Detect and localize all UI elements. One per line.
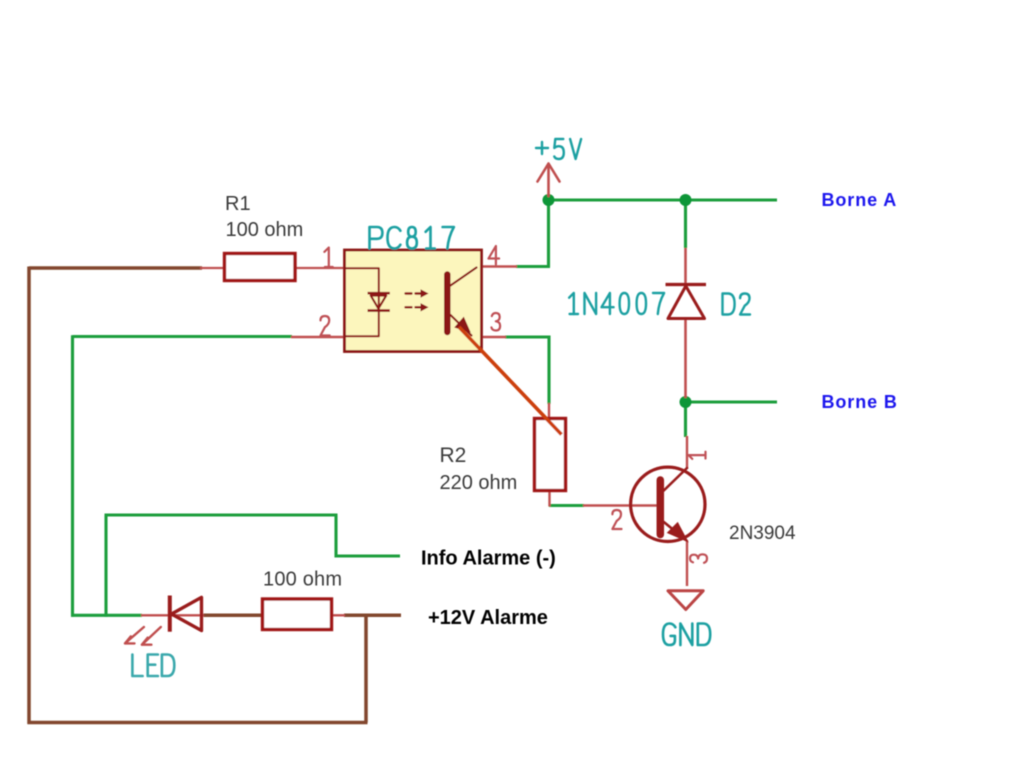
svg-text:2N3904: 2N3904 — [729, 523, 796, 544]
svg-text:Info Alarme (-): Info Alarme (-) — [421, 548, 556, 570]
svg-text:220 ohm: 220 ohm — [440, 472, 518, 494]
svg-text:Borne B: Borne B — [822, 392, 898, 412]
svg-text:100 ohm: 100 ohm — [263, 569, 342, 591]
svg-text:R1: R1 — [225, 193, 251, 215]
svg-text:Borne A: Borne A — [822, 190, 898, 210]
svg-text:100 ohm: 100 ohm — [226, 219, 304, 241]
svg-text:+12V Alarme: +12V Alarme — [428, 607, 548, 629]
svg-text:R2: R2 — [440, 444, 467, 467]
